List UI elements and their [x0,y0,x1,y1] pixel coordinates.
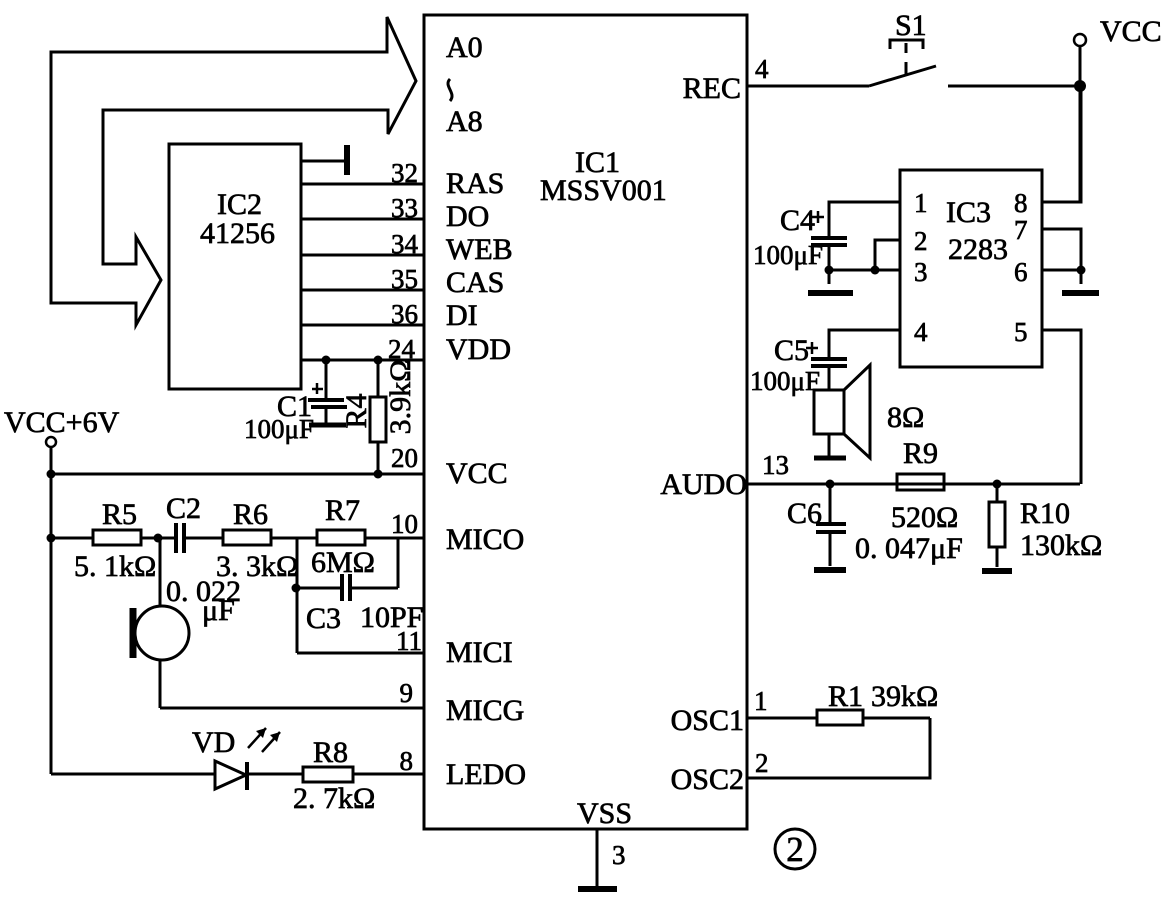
svg-text:C3: C3 [306,602,341,635]
svg-text:35: 35 [391,264,418,294]
svg-text:R7: R7 [325,494,360,527]
svg-text:REC: REC [683,72,741,105]
resistor R7 6M [311,494,424,579]
wire VCC pin20 [51,473,424,476]
svg-text:WEB: WEB [446,233,513,266]
ground under pin6 [1062,290,1099,296]
node rail-R5 junction [47,534,56,543]
svg-text:OSC2: OSC2 [671,763,744,796]
svg-text:41256: 41256 [200,217,275,250]
svg-text:520Ω: 520Ω [891,501,958,534]
wire C3 branch left [296,538,299,653]
resistor R1 39k [817,680,938,725]
bus arrow A0~A8 to IC1 and into IC2 [51,17,416,325]
wire IC3 pin8 [1042,86,1081,202]
svg-text:5: 5 [1014,317,1028,347]
svg-text:32: 32 [391,158,418,188]
svg-text:CAS: CAS [446,266,504,299]
svg-text:6: 6 [1014,257,1028,287]
svg-text:R1: R1 [828,680,863,713]
svg-text:R10: R10 [1020,497,1070,530]
switch S1 [869,9,1080,86]
svg-text:2: 2 [914,226,928,256]
svg-text:LEDO: LEDO [446,758,526,791]
terminal VCC right [1074,15,1162,202]
svg-text:VCC: VCC [1100,15,1162,48]
capacitor C3 10PF [297,538,423,635]
svg-text:100μF: 100μF [750,366,820,396]
svg-text:MICI: MICI [446,636,513,669]
svg-text:5. 1kΩ: 5. 1kΩ [74,550,156,583]
svg-text:34: 34 [391,229,419,259]
svg-text:0. 047μF: 0. 047μF [855,532,963,565]
wire IC3 pin6 [829,270,1081,284]
svg-text:3.9kΩ: 3.9kΩ [384,360,417,435]
wire IC3 pin4 [829,330,900,358]
IC1 box MSSV001 [424,15,747,830]
microphone BM [133,538,189,708]
wire left rail down [50,474,53,774]
ground under C4 [808,290,853,296]
svg-text:4: 4 [914,317,928,347]
wire OSC1 pin1 [747,717,817,720]
svg-text:7: 7 [1014,215,1028,245]
svg-text:VDD: VDD [446,333,511,366]
svg-text:C6: C6 [787,497,822,530]
wire REC pin4 [747,85,869,88]
node C3 junction [292,584,301,593]
ground VSS [578,886,617,892]
wire MICI pin11 [297,652,424,655]
node VDD-C1 junction [322,356,331,365]
node AUDO-R10 junction [993,480,1002,489]
svg-text:33: 33 [391,193,418,223]
svg-text:R9: R9 [903,437,938,470]
svg-text:VCC+6V: VCC+6V [4,406,120,439]
svg-text:R6: R6 [233,498,268,531]
svg-text:1: 1 [754,686,768,716]
capacitor C4 100uF [753,204,847,284]
ground under C6 [814,567,846,573]
speaker BL 8ohm [814,365,924,458]
svg-text:100μF: 100μF [753,240,823,270]
wire pin35 CAS [301,289,424,292]
svg-text:130kΩ: 130kΩ [1020,529,1102,562]
svg-text:MICO: MICO [446,523,524,556]
node VDD-R4 junction [374,356,383,365]
svg-text:2283: 2283 [948,233,1008,266]
svg-text:MSSV001: MSSV001 [540,174,667,207]
svg-text:8Ω: 8Ω [887,401,924,434]
ground under R10 [982,568,1012,574]
wire IC3 pin7 [1042,229,1081,270]
wire pin34 WEB [301,254,424,257]
svg-text:DI: DI [446,299,478,332]
wire pin33 DO [301,218,424,221]
IC2 box 41256 [169,144,301,389]
svg-text:R8: R8 [313,736,348,769]
svg-text:C2: C2 [166,492,201,525]
node AUDO-C6 junction [826,480,835,489]
wire IC3 pin2 [875,240,900,270]
svg-text:R4: R4 [340,393,373,428]
svg-text:2: 2 [786,830,804,869]
IC3 box 2283 [900,170,1042,367]
svg-text:1: 1 [914,188,928,218]
svg-text:39kΩ: 39kΩ [871,680,938,713]
svg-text:VCC: VCC [446,457,508,490]
svg-text:3. 3kΩ: 3. 3kΩ [216,550,298,583]
svg-text:13: 13 [762,450,789,480]
capacitor C5 100uF [750,334,847,396]
svg-text:OSC1: OSC1 [671,704,744,737]
terminal VCC+6V [4,406,120,474]
svg-text:3: 3 [914,257,928,287]
node C4-pin3 junction [825,266,834,275]
wire IC3 pin3 [829,269,900,272]
node pin2-pin3 junction [871,266,880,275]
svg-text:11: 11 [396,626,422,656]
node VCC-REC junction [1074,80,1086,92]
svg-text:36: 36 [391,299,418,329]
svg-text:DO: DO [446,200,489,233]
svg-text:2. 7kΩ: 2. 7kΩ [293,782,375,815]
capacitor C6 0.047uF [787,484,963,566]
figure number circled 2 [775,829,815,869]
resistor R8 2.7k [293,736,424,815]
svg-text:VD: VD [192,726,235,759]
wire LEDO left segment [51,773,214,776]
IC2 top stub terminal [301,145,347,175]
resistor R4 3.9k [340,360,417,474]
svg-text:MICG: MICG [446,694,524,727]
svg-text:2: 2 [755,748,769,778]
svg-text:20: 20 [391,443,418,473]
svg-text:A0: A0 [446,31,483,64]
svg-text:R5: R5 [102,498,137,531]
svg-text:10: 10 [391,509,418,539]
wire pin32 RAS [301,183,424,186]
resistor R9 520ohm [891,437,958,534]
diode VD LED [192,726,303,790]
resistor R10 130k [989,484,1102,567]
wire R1 to OSC2 [747,718,930,778]
node pin7-pin6 junction [1077,266,1086,275]
resistor R6 3.3k [216,498,317,583]
svg-text:8: 8 [400,746,414,776]
svg-text:100μF: 100μF [244,414,314,444]
node R5-C2-mic junction [154,534,163,543]
wire IC3 pin5 [1042,330,1081,484]
svg-text:RAS: RAS [446,167,504,200]
svg-text:3: 3 [612,840,626,870]
node R4-VCC junction [374,470,383,479]
capacitor C2 0.022uF [166,492,241,627]
wire IC3 pin1 [829,202,900,237]
capacitor C1 100uF [244,360,347,444]
svg-text:8: 8 [1014,188,1028,218]
wire pin24 VDD [301,359,424,362]
svg-text:A8: A8 [446,105,483,138]
svg-text:IC3: IC3 [946,196,991,229]
svg-text:μF: μF [202,594,235,627]
node VCC6V junction [47,470,56,479]
svg-text:AUDO: AUDO [660,468,747,501]
svg-text:24: 24 [388,334,416,364]
wire MICG pin9 [160,707,424,710]
svg-text:C4: C4 [780,204,815,237]
wire VSS pin3 [596,829,599,888]
svg-text:9: 9 [400,678,414,708]
wire AUDO pin13 [747,483,1080,486]
resistor R5 5.1k [51,498,174,583]
svg-text:4: 4 [755,54,769,84]
svg-text:VSS: VSS [577,797,632,830]
wire pin36 DI [301,324,424,327]
svg-text:S1: S1 [895,9,927,42]
svg-text:C5: C5 [774,334,809,367]
